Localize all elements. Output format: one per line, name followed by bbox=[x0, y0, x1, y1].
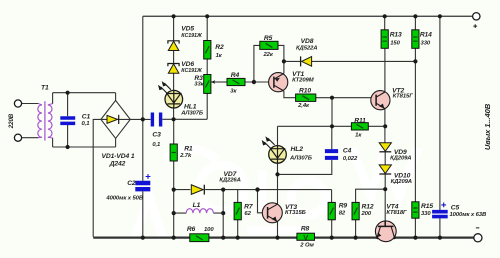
svg-text:150: 150 bbox=[390, 40, 400, 46]
svg-text:22к: 22к bbox=[262, 52, 273, 58]
svg-text:R11: R11 bbox=[354, 118, 366, 125]
svg-text:КТ209М: КТ209М bbox=[292, 78, 315, 84]
svg-text:0,022: 0,022 bbox=[343, 156, 358, 162]
svg-text:КД209А: КД209А bbox=[390, 156, 411, 162]
svg-text:КТ815Г: КТ815Г bbox=[393, 94, 414, 100]
svg-text:200: 200 bbox=[361, 211, 372, 217]
svg-text:R13: R13 bbox=[390, 32, 402, 39]
svg-text:C2: C2 bbox=[127, 180, 136, 187]
svg-text:R14: R14 bbox=[420, 32, 432, 39]
svg-text:R4: R4 bbox=[231, 72, 240, 79]
svg-text:VD8: VD8 bbox=[301, 38, 314, 45]
svg-text:R8: R8 bbox=[301, 226, 310, 233]
svg-text:VD5: VD5 bbox=[181, 26, 194, 33]
svg-text:L1: L1 bbox=[193, 202, 201, 209]
svg-text:330: 330 bbox=[421, 40, 431, 46]
svg-text:КС191Ж: КС191Ж bbox=[181, 68, 203, 74]
svg-text:КД522А: КД522А bbox=[296, 46, 317, 52]
svg-text:C3: C3 bbox=[152, 131, 161, 138]
svg-text:HL1: HL1 bbox=[184, 103, 197, 110]
svg-text:КД226А: КД226А bbox=[219, 178, 240, 184]
svg-text:R2: R2 bbox=[215, 44, 224, 51]
svg-text:Uвых 1...40В: Uвых 1...40В bbox=[483, 103, 492, 150]
svg-text:КД209А: КД209А bbox=[391, 179, 412, 185]
svg-text:0,1: 0,1 bbox=[82, 121, 90, 127]
svg-text:R6: R6 bbox=[187, 226, 196, 233]
svg-text:Д242: Д242 bbox=[109, 161, 126, 168]
svg-text:КТ818Г: КТ818Г bbox=[386, 210, 407, 216]
svg-text:R5: R5 bbox=[264, 35, 273, 42]
svg-text:R15: R15 bbox=[421, 203, 433, 210]
svg-text:C5: C5 bbox=[451, 205, 460, 212]
svg-text:R10: R10 bbox=[299, 88, 311, 95]
svg-text:2,4к: 2,4к bbox=[297, 103, 310, 109]
svg-text:T1: T1 bbox=[41, 84, 49, 91]
svg-text:C1: C1 bbox=[82, 113, 91, 120]
svg-text:V: V bbox=[303, 233, 308, 242]
svg-text:C4: C4 bbox=[343, 147, 352, 154]
svg-text:0,1: 0,1 bbox=[152, 142, 160, 148]
svg-text:100: 100 bbox=[204, 227, 214, 233]
svg-text:R12: R12 bbox=[362, 203, 374, 210]
svg-text:R9: R9 bbox=[339, 203, 348, 210]
svg-text:R1: R1 bbox=[184, 145, 193, 152]
svg-text:82: 82 bbox=[339, 211, 346, 217]
svg-text:4000мк x 50В: 4000мк x 50В bbox=[105, 195, 143, 201]
svg-text:2.7k: 2.7k bbox=[179, 153, 192, 159]
svg-text:АЛ307Б: АЛ307Б bbox=[180, 111, 203, 117]
svg-text:220В: 220В bbox=[8, 113, 15, 129]
svg-text:HL2: HL2 bbox=[291, 146, 304, 153]
svg-text:330: 330 bbox=[421, 211, 431, 217]
svg-text:33к: 33к bbox=[194, 81, 204, 87]
svg-text:1000мк x 63В: 1000мк x 63В bbox=[450, 212, 487, 218]
svg-text:КС191Ж: КС191Ж bbox=[181, 33, 203, 39]
svg-text:62: 62 bbox=[244, 211, 251, 217]
svg-text:КТ315Б: КТ315Б bbox=[285, 210, 306, 216]
svg-text:R7: R7 bbox=[244, 203, 253, 210]
svg-text:VD1-VD4 1: VD1-VD4 1 bbox=[102, 153, 135, 160]
svg-text:2 Ом: 2 Ом bbox=[299, 243, 314, 249]
svg-text:АЛ307Б: АЛ307Б bbox=[289, 156, 312, 162]
